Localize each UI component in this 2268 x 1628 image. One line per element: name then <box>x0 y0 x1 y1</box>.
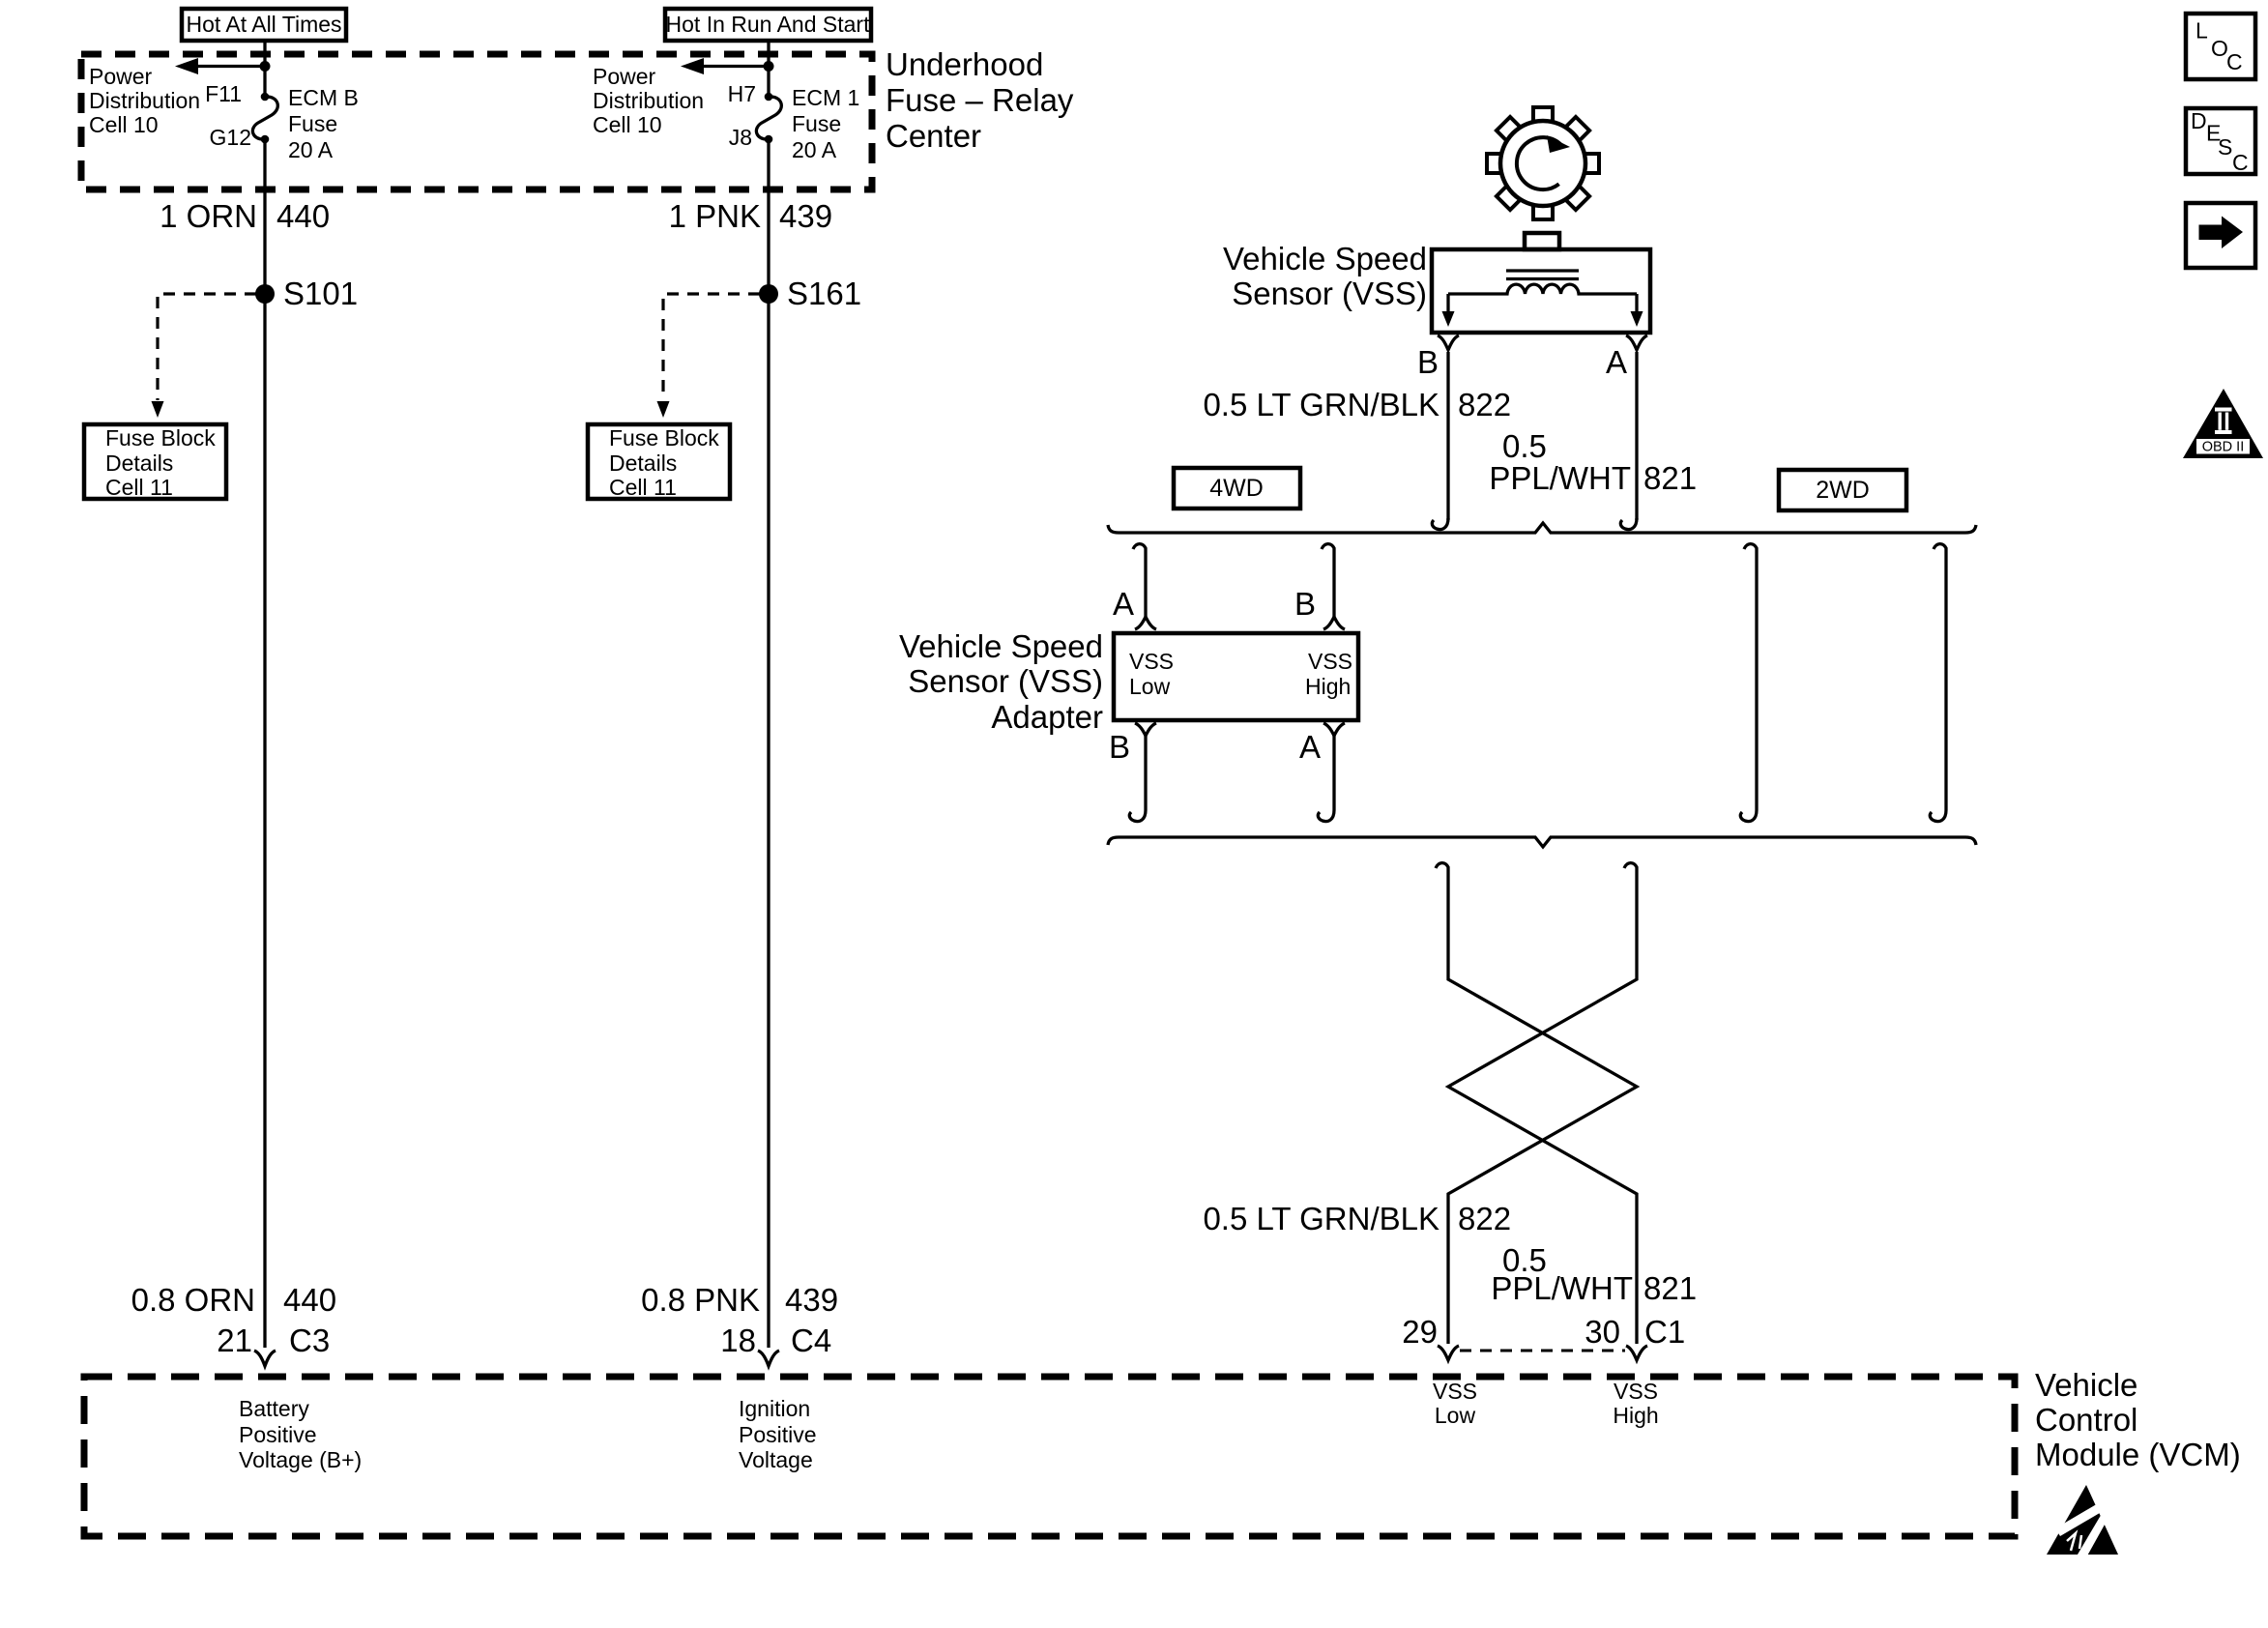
svg-text:Battery: Battery <box>239 1396 309 1421</box>
svg-text:Positive: Positive <box>739 1422 817 1447</box>
svg-text:C: C <box>2232 150 2249 175</box>
wire 821 upper <box>1635 352 1638 520</box>
svg-text:S161: S161 <box>787 276 861 311</box>
svg-text:Sensor (VSS): Sensor (VSS) <box>908 663 1103 699</box>
svg-text:Low: Low <box>1129 674 1171 699</box>
svg-text:Adapter: Adapter <box>991 699 1103 735</box>
svg-text:High: High <box>1613 1403 1658 1428</box>
harness brace top <box>1108 523 1976 533</box>
svg-text:OBD II: OBD II <box>2202 440 2245 455</box>
svg-text:Cell 10: Cell 10 <box>89 112 159 137</box>
label box "Hot At All Times" <box>182 9 346 41</box>
fuse ECM 1 (squiggle) with terminals H7/J8 <box>728 81 860 162</box>
label VSS Low (adapter) <box>1129 649 1174 699</box>
svg-text:30: 30 <box>1585 1314 1620 1350</box>
svg-text:439: 439 <box>785 1282 838 1318</box>
connector C1 dashed line <box>1460 1350 1625 1352</box>
svg-text:ECM B: ECM B <box>288 85 359 110</box>
svg-text:0.5 LT GRN/BLK: 0.5 LT GRN/BLK <box>1203 387 1439 422</box>
svg-text:21: 21 <box>217 1323 252 1358</box>
label VSS Low (VCM) <box>1433 1379 1477 1428</box>
svg-text:29: 29 <box>1402 1314 1438 1350</box>
svg-text:VSS: VSS <box>1614 1379 1658 1404</box>
svg-text:Fuse Block: Fuse Block <box>609 425 719 451</box>
connector fork pin 21 <box>254 1351 276 1366</box>
svg-text:D: D <box>2191 108 2207 133</box>
svg-text:Cell 10: Cell 10 <box>593 112 662 137</box>
label Vehicle Speed Sensor (VSS) Adapter <box>899 628 1103 735</box>
svg-text:Fuse – Relay: Fuse – Relay <box>886 82 1074 118</box>
wire label 0.5 LT GRN/BLK 822 (upper) <box>1203 387 1511 422</box>
label Underhood Fuse - Relay Center <box>886 46 1074 154</box>
svg-text:A: A <box>1606 344 1627 380</box>
fuse block details box (right) <box>588 424 730 500</box>
label Ignition Positive Voltage <box>739 1396 817 1472</box>
wire label 0.5 PPL/WHT 821 (upper) <box>1489 428 1697 496</box>
svg-text:440: 440 <box>276 198 330 234</box>
label Power Distribution Cell 10 (left) <box>89 64 200 137</box>
pin B fork (VSS) <box>1438 335 1459 350</box>
svg-text:Cell 11: Cell 11 <box>609 475 677 500</box>
svg-text:Fuse Block: Fuse Block <box>105 425 216 451</box>
coil lead left with arrow <box>1442 294 1455 327</box>
svg-text:0.8 PNK: 0.8 PNK <box>641 1282 760 1318</box>
svg-text:Positive: Positive <box>239 1422 317 1447</box>
wire 821 lower (twisted pair right) <box>1448 863 1637 1344</box>
label Power Distribution Cell 10 (right) <box>593 64 704 137</box>
2WD harness wire left <box>1740 544 1757 822</box>
DESC nav box <box>2186 108 2255 175</box>
splice S161 <box>759 276 861 311</box>
splice S101 <box>255 276 358 311</box>
pin 18 C4 label <box>720 1323 831 1358</box>
svg-text:Control: Control <box>2035 1402 2137 1438</box>
svg-text:High: High <box>1305 674 1351 699</box>
svg-text:0.5: 0.5 <box>1502 428 1547 464</box>
svg-text:C1: C1 <box>1644 1314 1685 1350</box>
svg-text:F11: F11 <box>205 81 242 106</box>
svg-text:Details: Details <box>105 451 173 476</box>
svg-text:J8: J8 <box>729 125 752 150</box>
svg-text:Vehicle: Vehicle <box>2035 1367 2137 1403</box>
svg-text:Ignition: Ignition <box>739 1396 810 1421</box>
svg-text:Center: Center <box>886 118 981 154</box>
dashed branch to fuse block details (left) <box>152 294 257 418</box>
node junction left <box>260 61 271 72</box>
wire label 0.8 ORN 440 <box>131 1282 336 1318</box>
svg-text:Underhood: Underhood <box>886 46 1043 82</box>
svg-text:821: 821 <box>1643 460 1697 496</box>
svg-text:Hot At All Times: Hot At All Times <box>186 12 341 37</box>
svg-text:Power: Power <box>593 64 656 89</box>
LOC nav box <box>2186 14 2255 79</box>
connector fork pin 18 <box>758 1351 779 1366</box>
4WD tag box <box>1174 468 1300 509</box>
svg-text:C: C <box>2226 49 2243 74</box>
svg-text:PPL/WHT: PPL/WHT <box>1491 1270 1633 1306</box>
svg-text:A: A <box>1113 586 1134 622</box>
svg-text:A: A <box>1299 729 1321 765</box>
svg-text:Cell 11: Cell 11 <box>105 475 173 500</box>
wire label 1 PNK 439 <box>669 198 832 234</box>
svg-text:Distribution: Distribution <box>593 88 704 113</box>
4WD adapter pin A stub (top left) <box>1133 544 1156 629</box>
connector fork pin 30 <box>1626 1346 1647 1360</box>
label Vehicle Speed Sensor (VSS) <box>1223 241 1427 311</box>
ESD sensitivity symbol <box>2047 1485 2118 1559</box>
svg-text:VSS: VSS <box>1433 1379 1477 1404</box>
label VSS High (VCM) <box>1613 1379 1658 1428</box>
wire 822 upper <box>1446 352 1449 520</box>
reluctor gear icon <box>1487 107 1599 219</box>
svg-text:B: B <box>1109 729 1130 765</box>
arrow to power distribution (right) <box>681 58 769 74</box>
svg-text:B: B <box>1417 344 1439 380</box>
2WD harness wire right <box>1930 544 1946 822</box>
4WD adapter pin B stub (bottom left) <box>1129 723 1156 822</box>
connector fork pin 29 <box>1438 1346 1459 1360</box>
svg-text:822: 822 <box>1458 1201 1511 1236</box>
wire label 0.5 PPL/WHT 821 (lower) <box>1491 1242 1697 1306</box>
svg-text:822: 822 <box>1458 387 1511 422</box>
pin 21 C3 label <box>217 1323 330 1358</box>
svg-text:L: L <box>2195 18 2208 44</box>
VSS adapter box <box>1114 633 1358 720</box>
svg-text:VSS: VSS <box>1308 649 1352 674</box>
svg-text:1 PNK: 1 PNK <box>669 198 761 234</box>
wire label 0.8 PNK 439 <box>641 1282 838 1318</box>
svg-text:18: 18 <box>720 1323 756 1358</box>
svg-text:Voltage: Voltage <box>739 1447 813 1472</box>
fuse ECM B (squiggle) with terminals F11/G12 <box>205 81 359 162</box>
svg-text:B: B <box>1294 586 1316 622</box>
label Battery Positive Voltage <box>239 1396 362 1472</box>
OBD II symbol <box>2183 389 2263 458</box>
svg-text:821: 821 <box>1643 1270 1697 1306</box>
svg-text:C4: C4 <box>791 1323 831 1358</box>
svg-text:S: S <box>2218 134 2232 160</box>
Vehicle Control Module dashed box <box>84 1377 2015 1536</box>
svg-text:Voltage (B+): Voltage (B+) <box>239 1447 362 1472</box>
fuse block details box (left) <box>84 424 226 500</box>
svg-text:ECM 1: ECM 1 <box>792 85 859 110</box>
pin A fork (VSS) <box>1626 335 1647 350</box>
svg-text:4WD: 4WD <box>1209 475 1264 502</box>
arrow to power distribution (left) <box>175 58 265 74</box>
svg-text:Distribution: Distribution <box>89 88 200 113</box>
wire 822 lower (twisted pair left) <box>1436 863 1637 1344</box>
svg-text:2WD: 2WD <box>1816 477 1870 504</box>
pickup coil core lines <box>1506 271 1579 279</box>
svg-text:0.8 ORN: 0.8 ORN <box>131 1282 255 1318</box>
Underhood Fuse-Relay Center dashed box <box>81 54 872 189</box>
svg-text:20 A: 20 A <box>792 137 837 162</box>
connector hook bottom 822 upper <box>1432 518 1448 530</box>
svg-text:Details: Details <box>609 451 677 476</box>
VSS sensor mount stub <box>1525 233 1559 249</box>
svg-text:G12: G12 <box>210 125 251 150</box>
svg-text:1 ORN: 1 ORN <box>160 198 257 234</box>
4WD adapter pin B stub (top right) <box>1322 544 1345 629</box>
wire label 1 ORN 440 <box>160 198 330 234</box>
wire label 0.5 LT GRN/BLK 822 (lower) <box>1203 1201 1511 1236</box>
svg-text:H7: H7 <box>728 81 756 106</box>
wire 439 (right vertical long) <box>767 139 770 1348</box>
wire ignition feed (right vertical) <box>767 42 770 97</box>
wire 440 (left vertical long) <box>263 139 266 1348</box>
connector hook bottom 821 upper <box>1620 518 1637 530</box>
2WD tag box <box>1779 470 1906 510</box>
svg-text:Low: Low <box>1435 1403 1476 1428</box>
svg-text:0.5 LT GRN/BLK: 0.5 LT GRN/BLK <box>1203 1201 1439 1236</box>
dashed branch to fuse block details (right) <box>657 294 761 418</box>
label VSS High (adapter) <box>1305 649 1352 699</box>
svg-text:Sensor (VSS): Sensor (VSS) <box>1232 276 1427 311</box>
coil lead right with arrow <box>1631 294 1643 327</box>
svg-text:Fuse: Fuse <box>792 111 841 136</box>
label box "Hot In Run And Start" <box>665 9 871 41</box>
svg-text:439: 439 <box>779 198 832 234</box>
VSS sensor box <box>1432 249 1650 333</box>
svg-text:20 A: 20 A <box>288 137 334 162</box>
svg-text:Fuse: Fuse <box>288 111 337 136</box>
svg-text:440: 440 <box>283 1282 336 1318</box>
node junction right <box>764 61 774 72</box>
svg-text:Module (VCM): Module (VCM) <box>2035 1437 2241 1472</box>
svg-text:Vehicle Speed: Vehicle Speed <box>1223 241 1427 276</box>
arrow nav box <box>2186 203 2255 268</box>
svg-text:C3: C3 <box>289 1323 330 1358</box>
svg-text:Vehicle Speed: Vehicle Speed <box>899 628 1103 664</box>
wire battery feed (left vertical) <box>263 42 266 97</box>
pickup coil winding <box>1448 284 1637 294</box>
4WD adapter pin A stub (bottom right) <box>1318 723 1345 822</box>
label Vehicle Control Module (VCM) <box>2035 1367 2241 1472</box>
svg-text:S101: S101 <box>283 276 358 311</box>
svg-text:Hot In Run And Start: Hot In Run And Start <box>666 12 871 37</box>
svg-text:Power: Power <box>89 64 153 89</box>
svg-text:VSS: VSS <box>1129 649 1174 674</box>
svg-text:PPL/WHT: PPL/WHT <box>1489 460 1631 496</box>
harness brace bottom <box>1108 837 1976 847</box>
